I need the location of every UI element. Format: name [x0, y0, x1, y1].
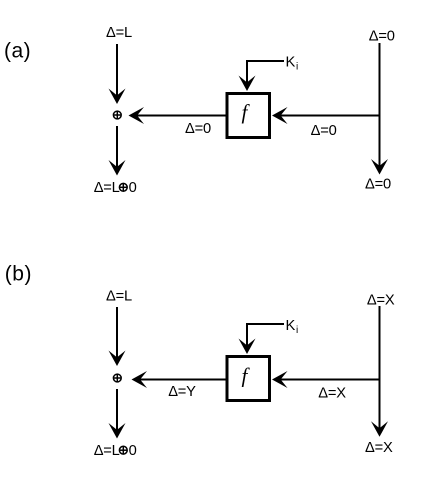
- svg-text:K: K: [286, 318, 296, 334]
- svg-text:Δ=L: Δ=L: [106, 289, 132, 305]
- svg-text:(b): (b): [5, 262, 32, 285]
- svg-text:K: K: [286, 55, 296, 71]
- svg-text:Δ=X: Δ=X: [367, 293, 395, 309]
- svg-text:(a): (a): [4, 40, 31, 63]
- svg-text:Δ=L: Δ=L: [106, 25, 132, 41]
- svg-text:i: i: [296, 325, 298, 336]
- svg-text:Δ=0: Δ=0: [185, 121, 211, 137]
- svg-text:f: f: [242, 100, 251, 124]
- svg-text:Δ=X: Δ=X: [318, 385, 346, 401]
- svg-text:Δ=Y: Δ=Y: [168, 384, 196, 400]
- svg-text:f: f: [242, 364, 251, 388]
- svg-text:0: 0: [129, 443, 137, 459]
- svg-text:Δ=0: Δ=0: [311, 123, 337, 139]
- svg-text:0: 0: [129, 180, 137, 196]
- svg-text:Δ=X: Δ=X: [365, 440, 393, 456]
- svg-text:Δ=L: Δ=L: [94, 180, 120, 196]
- svg-text:Δ=0: Δ=0: [365, 177, 391, 193]
- svg-text:Δ=0: Δ=0: [369, 29, 395, 45]
- svg-text:i: i: [296, 62, 298, 73]
- svg-text:Δ=L: Δ=L: [94, 443, 120, 459]
